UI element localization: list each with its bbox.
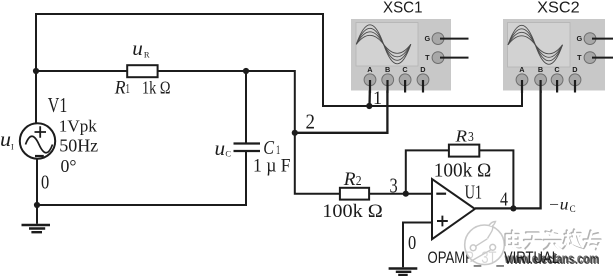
svg-text:1k Ω: 1k Ω — [142, 78, 171, 98]
svg-text:50Hz: 50Hz — [59, 136, 98, 156]
svg-text:T: T — [577, 53, 582, 62]
watermark chinese text dianzifashaoyou — [506, 230, 601, 250]
XSC2 G and T lead wires — [592, 39, 613, 58]
capacitor C1 plates — [234, 144, 261, 152]
node junction at capacitor top — [243, 68, 249, 74]
svg-text:B: B — [385, 65, 390, 74]
svg-text:www.elecfans.com: www.elecfans.com — [505, 252, 600, 267]
XSC2 terminals A B C D and G T — [516, 33, 596, 86]
svg-text:I: I — [11, 142, 14, 151]
XSC2 terminal labels — [519, 34, 582, 74]
wire: feedback from node 3 up over R3 — [406, 150, 449, 193]
ground (op-amp) — [389, 269, 418, 276]
label uC — [215, 139, 232, 160]
svg-text:1: 1 — [126, 82, 130, 97]
ground junction — [34, 202, 40, 208]
XSC1 terminal stub wires — [370, 80, 423, 93]
svg-text:u: u — [132, 39, 143, 60]
svg-text:R: R — [144, 50, 150, 60]
label R1 — [114, 78, 130, 99]
node 4 junction — [510, 205, 516, 211]
svg-text:u: u — [215, 139, 226, 160]
svg-text:3: 3 — [390, 173, 398, 197]
oscilloscope XSC1 — [351, 19, 469, 93]
svg-text:A: A — [367, 65, 373, 74]
wire: R3 right to node 4 — [479, 150, 513, 208]
wire: R2 to op-amp inverting input — [369, 193, 432, 195]
label -uc — [548, 196, 576, 214]
label C1 — [263, 138, 280, 159]
XSC1 G and T lead wires — [440, 39, 469, 58]
svg-text:R: R — [454, 126, 467, 145]
svg-text:u: u — [0, 127, 11, 151]
resistor R3 — [449, 145, 479, 157]
svg-text:100k Ω: 100k Ω — [434, 160, 492, 182]
wire: capacitor top lead — [245, 71, 247, 143]
node junction at source top — [33, 68, 39, 74]
wire: source top to R1 — [36, 70, 127, 72]
ground (left) — [22, 205, 51, 232]
svg-text:XSC2: XSC2 — [537, 0, 580, 17]
svg-text:C: C — [225, 148, 231, 158]
wire: op-amp output to node 4 and XSC2 B — [475, 84, 541, 208]
label R3 — [454, 126, 474, 145]
svg-text:U1: U1 — [465, 182, 483, 204]
wire: node 1 from source top rail to XSC1 A drop — [36, 14, 323, 124]
resistor R1 — [127, 65, 157, 77]
wire: R1 to node 2 corner — [158, 71, 295, 133]
wire: node 1 horizontal run to XSC2 A — [322, 85, 522, 106]
wire: node 2 down to R2 — [295, 133, 340, 194]
label uR — [132, 39, 150, 60]
XSC1 terminal labels — [367, 34, 430, 74]
wire: op-amp plus input to ground — [403, 223, 432, 268]
svg-text:1 µ F: 1 µ F — [253, 157, 291, 177]
svg-text:XSC1: XSC1 — [383, 0, 423, 17]
svg-text:G: G — [576, 34, 582, 43]
XSC1 screen — [356, 23, 418, 67]
node 2 junction — [292, 130, 298, 136]
wire: node 2 to XSC1 terminal B — [295, 84, 388, 133]
label R2 — [343, 169, 362, 190]
svg-text:0: 0 — [41, 172, 49, 194]
svg-text:D: D — [572, 65, 577, 74]
svg-text:C: C — [570, 204, 576, 214]
svg-text:−u: −u — [548, 196, 569, 213]
XSC2 screen — [508, 23, 571, 68]
wire: capacitor bottom lead and ground rail to source — [37, 152, 246, 205]
svg-text:2: 2 — [306, 110, 316, 134]
wire: source bottom lead — [36, 159, 38, 205]
svg-text:V1: V1 — [48, 93, 68, 117]
label ui — [0, 127, 14, 151]
svg-text:1: 1 — [276, 142, 280, 157]
node 1 junction — [366, 103, 372, 109]
svg-text:1Vpk: 1Vpk — [59, 117, 98, 136]
svg-text:R: R — [343, 169, 356, 190]
XSC1 body — [351, 19, 451, 91]
resistor R2 — [340, 188, 369, 200]
svg-text:R: R — [114, 78, 126, 99]
svg-text:T: T — [425, 53, 430, 62]
XSC1 terminals A B C D and G T — [364, 33, 444, 86]
op-amp U1 — [432, 179, 475, 239]
svg-text:100k Ω: 100k Ω — [322, 201, 383, 222]
XSC2 waveform traces — [508, 25, 563, 64]
svg-text:C: C — [402, 65, 408, 74]
svg-text:3: 3 — [468, 129, 474, 144]
svg-text:4: 4 — [500, 189, 508, 211]
svg-text:1: 1 — [373, 89, 382, 109]
svg-text:2: 2 — [356, 173, 362, 188]
svg-text:G: G — [424, 34, 430, 43]
XSC2 terminal stub wires — [522, 80, 575, 93]
XSC1 waveform traces — [356, 25, 411, 64]
svg-text:0: 0 — [408, 232, 416, 254]
oscilloscope XSC2 — [503, 19, 613, 93]
node 3 junction — [403, 191, 409, 197]
svg-text:0°: 0° — [61, 156, 77, 176]
XSC2 body — [503, 19, 605, 91]
watermark logo circle — [465, 222, 505, 265]
svg-text:D: D — [420, 65, 425, 74]
svg-text:A: A — [519, 65, 525, 74]
svg-text:B: B — [538, 65, 543, 74]
voltage source V1 — [20, 123, 55, 158]
wire: XSC1 terminal A drop — [368, 84, 371, 106]
svg-text:C: C — [554, 65, 560, 74]
